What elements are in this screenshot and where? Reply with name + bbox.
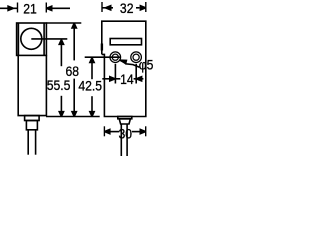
dim 32 line left	[102, 7, 113, 9]
right view gland flange	[118, 117, 132, 119]
lens circle	[21, 28, 42, 49]
dim 14 line right segment	[134, 78, 137, 80]
left view cable gland nut	[26, 121, 37, 130]
dim 32 line right	[136, 7, 140, 9]
arrowhead dim32 left (points left at tick)	[105, 5, 111, 12]
arrowhead phi5 leader (points up-left at screw)	[120, 59, 128, 65]
dim 32 left tick	[101, 2, 103, 12]
dim 55.5 line bottom segment	[60, 96, 62, 117]
dim 21 left tail	[0, 7, 17, 9]
dim 14 left tail	[102, 78, 110, 80]
screw hole left inner	[112, 54, 118, 60]
screw center extension line	[85, 56, 121, 58]
screw hole left outer	[110, 52, 121, 63]
dim 68 line bottom segment	[73, 79, 75, 117]
left view cable gland flange	[25, 116, 39, 121]
arrowhead dim55.5 top (points up)	[58, 40, 65, 46]
svg-text:55.5: 55.5	[47, 77, 71, 93]
dim 21 right tail	[46, 7, 70, 9]
arrowhead dim21 left (points right at tick)	[7, 5, 13, 12]
arrowhead dim68 bottom (points down)	[71, 111, 78, 117]
svg-text:φ5: φ5	[139, 57, 154, 73]
arrowhead dim42.5 bottom (points down)	[89, 111, 96, 117]
left view cap outer	[17, 23, 47, 55]
dim 55.5 line top segment	[60, 40, 62, 67]
dim 30 right tick	[145, 126, 147, 136]
left view cap inner bezel right line	[43, 23, 45, 55]
dim 30 left tick	[103, 126, 105, 136]
right view gland nut	[119, 119, 130, 124]
screw hole right outer	[131, 52, 142, 63]
arrowhead dim30 left (points left at tick)	[104, 128, 110, 135]
dim 14 right extension line	[135, 64, 137, 84]
dim 30 line right	[132, 131, 140, 133]
dim 68 line top segment	[73, 23, 75, 60]
arrowhead dim14 right (points left at ext line)	[136, 76, 142, 83]
arrowhead dim30 right (points right at tick)	[140, 128, 146, 135]
dim 68 top extension line	[46, 22, 81, 24]
screw hole right inner	[133, 54, 139, 60]
lens center leader	[31, 38, 67, 40]
right view outline	[102, 21, 146, 116]
dim 42.5 line bottom segment	[91, 96, 93, 116]
right view cable left edge	[120, 124, 122, 156]
arrowhead dim14 left (points right at ext line)	[109, 76, 115, 83]
arrowhead dim55.5 bottom (points down)	[58, 111, 65, 117]
dim 14 left extension line	[114, 64, 116, 84]
right view left edge dark segment	[101, 44, 103, 51]
dim 30 line left	[110, 131, 119, 133]
dim 21 left tick	[17, 3, 19, 13]
arrowhead dim68 top (points up)	[71, 23, 78, 29]
svg-text:32: 32	[120, 0, 134, 16]
dim 14 line left segment	[115, 78, 120, 80]
arrowhead dim21 right (points left at tick)	[46, 5, 52, 12]
left view body	[18, 55, 46, 115]
arrowhead dim32 right (points right at tick)	[140, 5, 146, 12]
left view cap inner bezel left line	[17, 23, 19, 55]
arrowhead dim42.5 top (points up)	[89, 58, 96, 64]
svg-text:30: 30	[119, 126, 133, 142]
svg-text:14: 14	[120, 71, 134, 87]
dim 32 right tick	[145, 2, 147, 12]
dim 42.5 line top segment	[91, 58, 93, 79]
left view cable right edge	[35, 130, 37, 155]
phi5 leader polyline	[120, 60, 140, 67]
dim 14 right tail	[136, 78, 143, 80]
dim 21 right tick	[45, 3, 47, 13]
left view cable left edge	[27, 130, 29, 155]
right view indicator window	[110, 39, 141, 45]
svg-text:42.5: 42.5	[78, 77, 102, 93]
svg-text:21: 21	[23, 1, 37, 17]
right view cable right edge	[126, 124, 128, 156]
bottom reference line	[46, 116, 100, 118]
